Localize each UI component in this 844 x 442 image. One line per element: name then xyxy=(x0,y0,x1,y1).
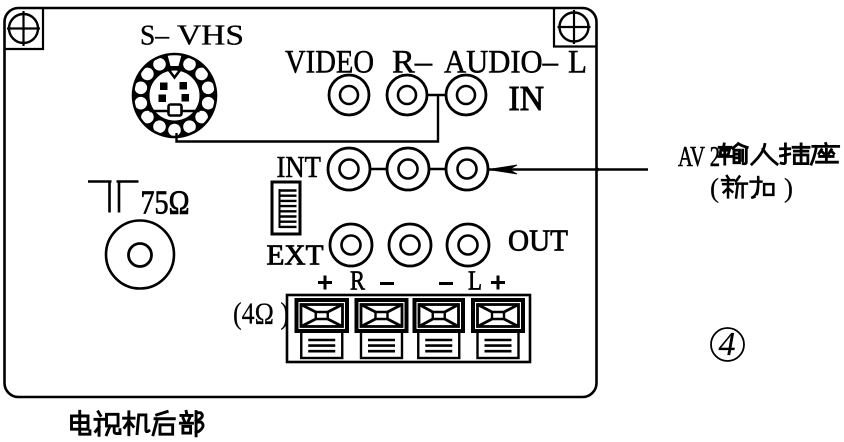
label AUDIO- xyxy=(444,45,558,81)
screw top-right xyxy=(558,10,591,44)
wire link av2 2-3 xyxy=(429,168,446,170)
label + (R) xyxy=(318,276,332,290)
label R- xyxy=(392,45,433,81)
label 75-ohm xyxy=(141,185,190,222)
S-VHS connector inner face xyxy=(148,69,201,122)
S-VHS key slot xyxy=(150,105,200,116)
label L xyxy=(568,45,587,81)
jack video-in xyxy=(329,75,369,115)
label AV2 input jack xyxy=(678,142,839,173)
label S-VHS xyxy=(140,20,244,52)
wire link av2 1-2 xyxy=(370,168,387,170)
jack av2 video xyxy=(328,148,370,190)
screw box top-left xyxy=(5,8,44,49)
S-VHS connector outer ring xyxy=(133,54,216,137)
svg-text:VIDEO: VIDEO xyxy=(285,45,374,81)
label OUT xyxy=(508,223,568,258)
speaker terminal 3 clip xyxy=(415,300,464,331)
speaker terminal 1 tab xyxy=(301,331,342,358)
antenna symbol xyxy=(88,182,139,213)
speaker terminal 4 tab xyxy=(478,331,519,358)
svg-text:IN: IN xyxy=(509,79,545,118)
S-VHS notch xyxy=(169,70,181,78)
svg-text:L: L xyxy=(468,266,482,296)
speaker terminal block xyxy=(287,295,530,362)
svg-text:AV 2: AV 2 xyxy=(678,142,720,173)
speaker terminal 2 tab xyxy=(361,331,402,358)
S-VHS pins xyxy=(159,82,190,102)
svg-text:EXT: EXT xyxy=(267,241,324,272)
label EXT xyxy=(267,241,324,272)
label R xyxy=(350,266,365,296)
label + (L) xyxy=(491,276,505,290)
screw top-left xyxy=(7,11,40,46)
caption TV rear xyxy=(72,411,204,435)
figure number 4 xyxy=(711,326,744,363)
svg-text:R: R xyxy=(350,266,365,296)
jack out video xyxy=(330,224,372,266)
svg-text:(: ( xyxy=(710,173,719,203)
svg-text:75Ω: 75Ω xyxy=(141,185,190,222)
svg-text:VHS: VHS xyxy=(177,20,244,52)
svg-text:4: 4 xyxy=(719,326,736,363)
screw box top-right xyxy=(554,8,596,47)
label IN xyxy=(509,79,545,118)
speaker terminal 2 clip xyxy=(357,300,407,331)
jack av2 audio R xyxy=(387,148,429,190)
svg-text:): ) xyxy=(784,173,793,203)
svg-text:(4Ω ): (4Ω ) xyxy=(233,296,289,331)
jack out audio L xyxy=(447,224,489,266)
jack audio-in R xyxy=(387,75,427,115)
label 4-ohm xyxy=(233,296,289,331)
TV rear panel outline xyxy=(5,8,597,397)
label - (R) xyxy=(380,282,394,285)
label - (L) xyxy=(439,282,453,285)
jack out audio R xyxy=(389,224,431,266)
RF antenna connector xyxy=(106,221,174,289)
wire S-VHS to audio junction xyxy=(177,96,439,142)
label VIDEO xyxy=(285,45,374,81)
label INT xyxy=(277,149,322,184)
svg-text:S–: S– xyxy=(140,20,169,52)
svg-text:L: L xyxy=(568,45,587,81)
label L xyxy=(468,266,482,296)
switch INT/EXT xyxy=(272,182,300,234)
speaker terminal 3 tab xyxy=(418,331,459,358)
speaker terminal 4 clip xyxy=(473,300,523,331)
jack av2 audio L xyxy=(446,148,488,190)
jack audio-in L xyxy=(446,75,486,115)
speaker terminal 1 clip xyxy=(297,300,348,331)
label (newly added) xyxy=(710,173,793,203)
wire link R-L in xyxy=(427,94,446,96)
arrow to AV2 jack xyxy=(488,165,648,174)
svg-text:INT: INT xyxy=(277,149,322,184)
svg-text:OUT: OUT xyxy=(508,223,568,258)
